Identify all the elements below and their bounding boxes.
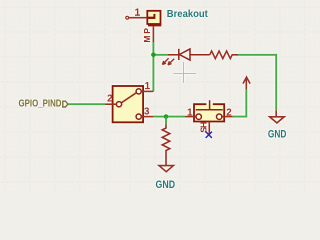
junction B: [164, 114, 169, 119]
svg-text:SH: SH: [198, 122, 208, 133]
push button pin 2: [222, 116, 233, 118]
wire: push button pin 2 up to power arrow: [233, 89, 247, 116]
wire: MP pin to junction A down to switch pin 1: [152, 42, 154, 92]
resistor R1 (horizontal): [210, 51, 238, 59]
LED D1: [168, 49, 210, 60]
wire: junction B down to resistor R2: [165, 117, 167, 125]
connector J1 Breakout body: [147, 11, 161, 27]
svg-text:2: 2: [107, 94, 113, 105]
hierarchical label GPIO_PIND: [19, 99, 68, 110]
LED emission arrows: [162, 58, 174, 65]
svg-text:1: 1: [135, 8, 141, 19]
SPDT pin 1: [141, 90, 153, 92]
svg-text:3: 3: [144, 107, 150, 118]
wire: GPIO_PIND label to switch pin 2: [68, 103, 106, 105]
junction A: [151, 53, 156, 58]
wire: junction A to LED: [153, 54, 167, 56]
cursor crosshair: [174, 62, 197, 83]
switch SW1 SPDT body: [113, 86, 144, 122]
svg-text:GPIO_PIND: GPIO_PIND: [19, 99, 62, 110]
svg-text:1: 1: [145, 81, 151, 92]
svg-text:Breakout: Breakout: [167, 9, 209, 20]
wire: switch pin 3 to push button: [153, 116, 185, 118]
svg-text:GND: GND: [268, 129, 287, 141]
push button pin 1: [185, 116, 196, 118]
resistor R2 (vertical): [162, 125, 170, 166]
svg-text:GND: GND: [156, 179, 176, 191]
svg-text:1: 1: [187, 107, 193, 118]
GND symbol (bottom): [159, 166, 173, 172]
SPDT pin 2: [105, 103, 116, 105]
push button pin SH: [208, 122, 210, 135]
pin MP (connector): [152, 26, 154, 42]
power arrow (to pull-up): [243, 77, 250, 89]
push button SW2 body: [194, 100, 224, 121]
no-connect X: [206, 132, 212, 138]
svg-text:2: 2: [226, 107, 232, 118]
SPDT pin 3: [141, 116, 153, 118]
connector pin 1: [126, 16, 148, 19]
wire: resistor to right corner: [238, 55, 276, 111]
GND symbol (right): [270, 110, 285, 123]
